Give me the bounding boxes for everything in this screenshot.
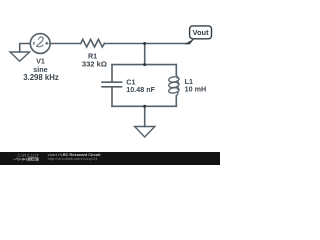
svg-text:LAB: LAB (30, 157, 38, 161)
svg-text:Vout: Vout (193, 28, 210, 37)
svg-text:10.48 nF: 10.48 nF (126, 85, 155, 94)
svg-text:3.298 kHz: 3.298 kHz (23, 73, 59, 82)
svg-text:http://circuitlab.com/c4xq124: http://circuitlab.com/c4xq124 (48, 156, 99, 161)
svg-text:10 mH: 10 mH (185, 84, 207, 93)
svg-text:332 kΩ: 332 kΩ (82, 59, 107, 68)
